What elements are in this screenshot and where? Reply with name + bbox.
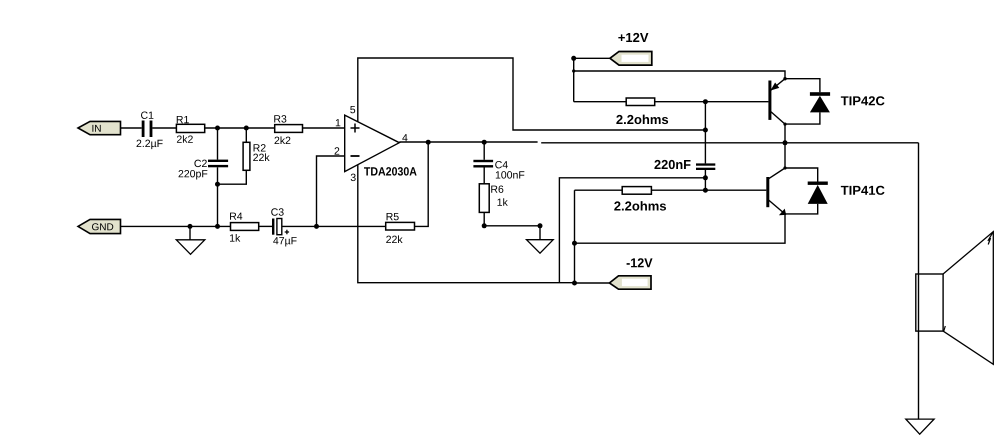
wire bottom 2.2ohms to Q2 base	[651, 189, 766, 191]
pin number 3	[351, 174, 356, 181]
power connector +12V	[571, 33, 652, 65]
op-amp U1 TDA2030A	[345, 115, 417, 176]
wire zobel left and down	[559, 178, 705, 283]
resistor 2.2ohms top	[616, 98, 668, 124]
wire R1 to R3	[205, 127, 275, 129]
capacitor C2	[179, 160, 229, 180]
resistor 2.2ohms bottom	[614, 187, 666, 211]
ground symbol at speaker	[906, 419, 934, 434]
node junction output/R5	[426, 140, 431, 145]
wire Q1 collector to output	[784, 124, 786, 143]
wire C2 top lead	[217, 128, 219, 160]
resistor R4	[230, 213, 259, 242]
wire R3 to op-amp pin 1	[303, 127, 345, 129]
wire C2 junction to R2 bottom	[218, 170, 247, 184]
wire output segment A	[399, 141, 537, 143]
wire feedback node to R5	[317, 225, 386, 227]
wire pin 2 to feedback column	[317, 156, 345, 226]
resistor R3	[274, 115, 302, 144]
wire 220nF bottom	[704, 170, 706, 190]
node junction at R1/C2	[215, 126, 220, 131]
resistor R5	[386, 213, 415, 243]
node junction feedback	[314, 224, 319, 229]
node junction output/Q1	[783, 140, 788, 145]
ground symbol at input	[176, 226, 205, 254]
pin 3 wire down	[358, 165, 575, 283]
wire C2 junction down to GND row	[217, 184, 219, 226]
node junction GND/C2 column	[215, 224, 220, 229]
node small at emitter branch	[572, 69, 575, 72]
resistor R1	[176, 116, 204, 143]
wire speaker column	[918, 143, 920, 419]
node junction 220nF bottom	[703, 175, 708, 180]
wire output segment B	[541, 142, 918, 144]
wire 2.2ohms to Q1 base	[655, 101, 769, 103]
pin number 2	[335, 147, 340, 154]
node junction rail at 130	[703, 128, 708, 133]
wire rail to 220nF	[704, 130, 706, 163]
node junction rail top	[703, 99, 708, 104]
pin 5 wire and +V rail to rail node	[358, 58, 706, 130]
wire R2 top lead	[245, 128, 247, 142]
capacitor 220nF	[654, 160, 715, 170]
capacitor C4	[473, 160, 524, 179]
wire to top 2.2ohms	[574, 101, 627, 103]
wire C3 to feedback node	[282, 225, 317, 227]
transistor Q1 TIP42C	[768, 77, 884, 126]
wire C2 bottom lead	[217, 167, 219, 184]
capacitor C3 polarized	[271, 208, 296, 246]
wire output to Q2 collector	[784, 143, 786, 168]
pin number 4	[402, 134, 407, 141]
wire C4 to R6	[483, 168, 485, 184]
node junction emitter return	[572, 241, 577, 246]
ground symbol at R6	[527, 240, 554, 254]
wire emitter supply branch	[574, 71, 785, 79]
node junction -12V	[572, 281, 577, 286]
wire emitter return	[575, 214, 786, 243]
node junction output/C4	[482, 140, 487, 145]
diode D2	[785, 168, 828, 214]
node junction C2/R2 bottom	[215, 182, 220, 187]
resistor R6	[479, 184, 508, 213]
wire bottom 2.2ohms left lead	[575, 189, 623, 191]
wire rail column	[704, 102, 706, 130]
node junction at ground symbol	[188, 224, 193, 229]
resistor R2	[243, 142, 270, 170]
node junction R6 bottom	[482, 223, 487, 228]
wire C4 top lead	[483, 142, 485, 160]
wire GND row	[121, 225, 231, 227]
wire -12V column	[574, 190, 576, 283]
pin number 5	[350, 106, 355, 113]
wire R5 to output column	[415, 142, 429, 226]
wire R4 to C3	[259, 225, 272, 227]
connector GND tag	[78, 219, 121, 233]
capacitor C1	[137, 111, 163, 149]
wire +12V down column	[573, 58, 575, 101]
diode D1	[785, 79, 830, 124]
node junction at R2 top	[244, 126, 249, 131]
connector IN tag	[78, 121, 121, 134]
node junction base row	[703, 188, 708, 193]
wire C1 to R1	[152, 127, 176, 129]
transistor Q2 TIP41C	[766, 166, 884, 215]
pin number 1	[336, 119, 341, 126]
speaker LS1	[916, 232, 994, 365]
wire R6 bottom to ground	[484, 212, 540, 239]
node junction ground stub	[538, 223, 543, 228]
power connector -12V	[575, 258, 653, 289]
wire IN to C1	[121, 127, 142, 129]
